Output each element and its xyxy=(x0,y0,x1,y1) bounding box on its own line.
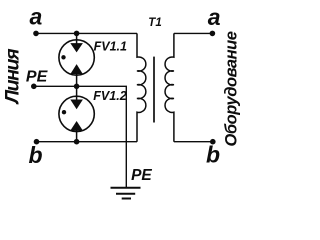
terminal dot a left xyxy=(33,31,39,37)
svg-text:a: a xyxy=(208,4,221,30)
svg-text:PE: PE xyxy=(26,69,49,86)
terminal dot a right xyxy=(210,31,216,37)
junction on PE wire between FV1.1 and FV1.2 xyxy=(74,84,80,90)
wire: secondary bottom to right b xyxy=(174,141,213,143)
svg-text:a: a xyxy=(30,4,43,30)
svg-text:b: b xyxy=(29,142,43,168)
svg-text:PE: PE xyxy=(131,167,152,184)
svg-text:T1: T1 xyxy=(148,17,161,29)
wire: left b to transformer primary bottom xyxy=(37,141,138,143)
transformer T1 secondary winding xyxy=(165,33,174,141)
terminal dot PE xyxy=(31,84,37,90)
wire: left a to transformer primary top xyxy=(36,32,137,34)
terminal dot b right xyxy=(210,139,216,145)
ground symbol xyxy=(111,188,141,199)
transformer T1 core xyxy=(153,57,155,123)
wire: PE terminal to down-corner xyxy=(34,86,127,188)
wire: secondary top to right a xyxy=(174,32,213,34)
terminal dot b left xyxy=(34,139,40,145)
transformer T1 primary winding xyxy=(137,33,146,141)
arrester FV1.1 xyxy=(59,33,94,86)
junction on bottom wire at FV1.2 xyxy=(74,139,80,145)
svg-text:Оборудование: Оборудование xyxy=(222,31,240,146)
svg-text:FV1.1: FV1.1 xyxy=(94,40,127,54)
svg-text:Линия: Линия xyxy=(2,48,24,105)
junction on top wire at FV1.1 xyxy=(74,31,80,37)
arrester FV1.2 xyxy=(59,86,94,141)
svg-text:FV1.2: FV1.2 xyxy=(93,89,126,103)
svg-text:b: b xyxy=(206,142,220,168)
